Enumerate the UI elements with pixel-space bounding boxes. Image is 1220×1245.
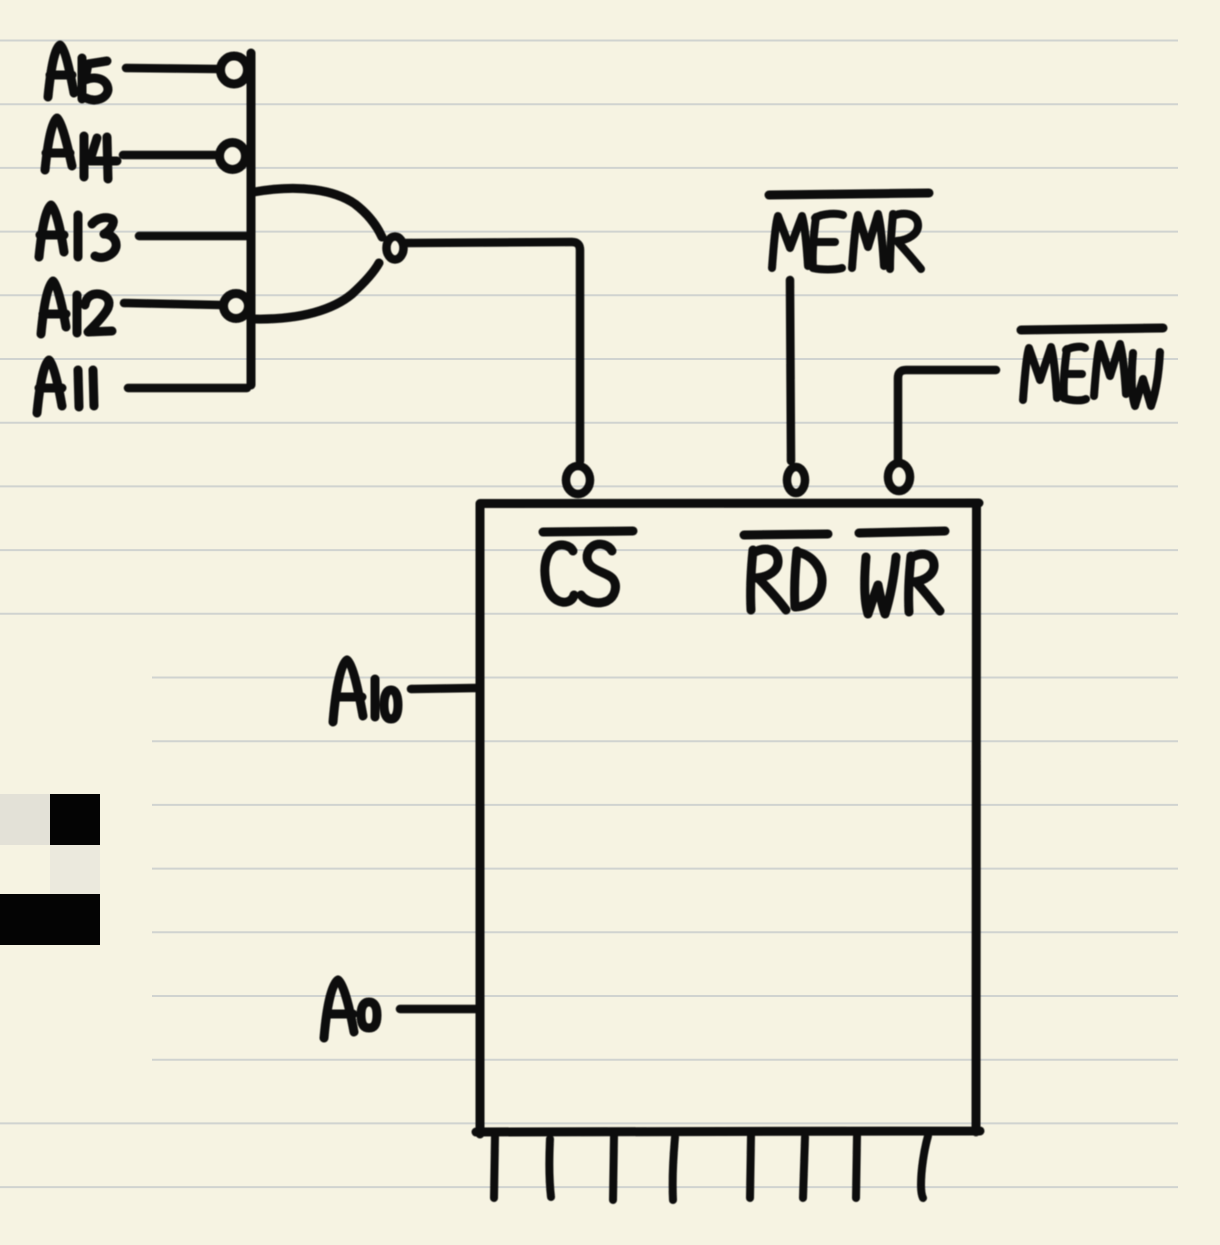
inversion bubble A12	[224, 294, 249, 319]
label A11	[37, 360, 94, 413]
wire A0	[400, 1005, 476, 1014]
MEMR overline	[769, 193, 929, 195]
wire A10	[411, 688, 476, 689]
wire A11	[128, 384, 247, 393]
label A0	[324, 980, 377, 1038]
wire MEMW to WR	[898, 370, 996, 460]
label A14	[45, 118, 117, 179]
label MEMR	[772, 214, 921, 270]
label WR	[865, 554, 940, 614]
label A15	[48, 45, 108, 100]
pin bubble CS	[566, 466, 590, 494]
CS overline	[543, 531, 633, 532]
wire A12	[124, 303, 221, 305]
wire MEMR to RD	[790, 280, 791, 461]
data pin tick 1	[494, 1136, 495, 1198]
wire A14	[123, 151, 215, 160]
label RD	[751, 549, 822, 610]
inversion bubble A15	[221, 56, 248, 84]
label CS	[545, 544, 616, 603]
data pin tick 5	[750, 1136, 751, 1198]
data pin tick 3	[613, 1136, 614, 1200]
label A10	[333, 660, 398, 722]
data pin tick 6	[803, 1137, 805, 1198]
data pin tick 8	[921, 1136, 928, 1198]
memory chip box U2	[476, 503, 980, 1134]
label A12	[41, 281, 112, 334]
wire A15	[126, 68, 219, 69]
pin bubble WR	[888, 463, 910, 491]
NAND gate U1 output bubble	[387, 237, 404, 260]
label MEMW	[1023, 344, 1160, 406]
inversion bubble A14	[220, 143, 246, 170]
NAND gate U1 body	[254, 188, 382, 319]
label A13	[39, 205, 116, 257]
RD overline	[744, 534, 828, 535]
input bus vertical wire	[247, 53, 256, 385]
pin bubble RD	[787, 467, 805, 493]
wire A13	[139, 232, 247, 241]
data pin tick 7	[856, 1136, 857, 1198]
data pin tick 4	[673, 1137, 675, 1200]
WR overline	[859, 531, 945, 533]
data pin tick 2	[549, 1139, 551, 1197]
wire gate output to CS	[406, 242, 580, 461]
MEMW overline	[1021, 328, 1163, 330]
